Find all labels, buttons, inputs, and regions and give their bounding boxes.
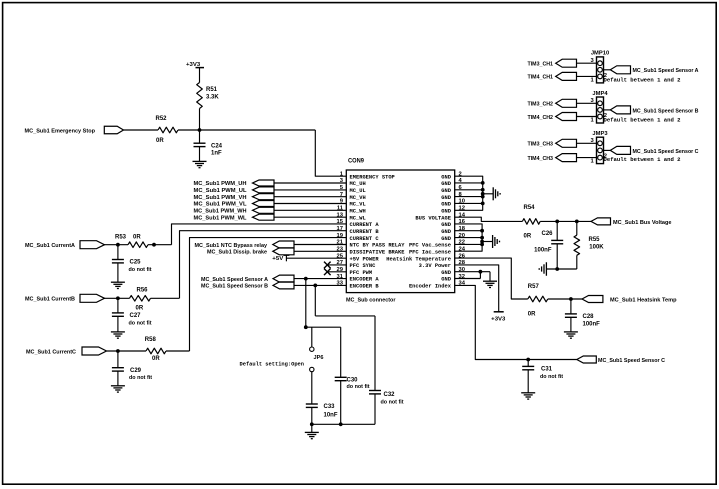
ground below C29 — [117, 371, 119, 386]
svg-text:MC_Sub1 PWM_VH: MC_Sub1 PWM_VH — [194, 195, 247, 201]
svg-text:NTC BY PASS RELAY: NTC BY PASS RELAY — [350, 243, 406, 249]
svg-text:Default between 1 and 2: Default between 1 and 2 — [604, 157, 681, 163]
svg-text:GND: GND — [441, 208, 451, 214]
wire Speed Sensor A down — [305, 279, 307, 328]
ground below C27 — [117, 316, 119, 332]
wire TIM4_CH3 to JMP3 — [577, 157, 597, 159]
wire Speed Sensor B down — [314, 285, 316, 316]
wire Speed Sensor B to CON9 pin 33 — [294, 284, 346, 286]
wire GND bus pins 2-12 — [455, 176, 483, 210]
port MC_Sub1 Heatsink Temp — [582, 296, 603, 303]
svg-text:BUS VOLTAGE: BUS VOLTAGE — [415, 215, 451, 221]
port MC_Sub1 Speed Sensor C — [610, 146, 630, 154]
svg-text:ENCODER B: ENCODER B — [350, 284, 380, 290]
svg-text:JMP10: JMP10 — [591, 51, 609, 57]
svg-text:GND: GND — [441, 229, 451, 235]
ground left of rail — [545, 262, 547, 276]
node CurrentC junction — [116, 349, 120, 353]
wire BUS VOLTAGE pin 14 to R54 — [455, 217, 523, 221]
svg-text:C28: C28 — [583, 314, 595, 320]
wire Speed Sensor A to CON9 pin 31 — [294, 278, 346, 280]
svg-text:TIM4_CH3: TIM4_CH3 — [528, 156, 554, 162]
svg-text:MC_Sub1 Bus Voltage: MC_Sub1 Bus Voltage — [613, 220, 672, 226]
resistor R55 100K — [576, 221, 578, 235]
wire TIM3_CH2 to JMP4 — [577, 102, 597, 104]
svg-text:R56: R56 — [137, 288, 149, 294]
svg-text:MC_Sub1 NTC Bypass relay: MC_Sub1 NTC Bypass relay — [195, 243, 268, 249]
svg-text:MC_Sub1 PWM_WH: MC_Sub1 PWM_WH — [194, 209, 247, 215]
svg-text:MC_Sub connector: MC_Sub connector — [346, 298, 396, 304]
svg-text:+5V: +5V — [272, 256, 283, 262]
jumper JP6 — [310, 347, 314, 351]
wire stub pin 27 — [327, 264, 346, 266]
svg-text:MC_Sub1 Speed Sensor A: MC_Sub1 Speed Sensor A — [201, 277, 269, 283]
node R51/R52/C24 junction — [198, 128, 202, 132]
svg-text:EMERGENCY STOP: EMERGENCY STOP — [350, 174, 395, 180]
node GND bus2 stem — [480, 240, 484, 244]
capacitor C27 do not fit — [117, 298, 119, 313]
svg-text:GND: GND — [441, 188, 451, 194]
svg-text:0R: 0R — [133, 235, 141, 241]
svg-text:Default between 1 and 2: Default between 1 and 2 — [604, 77, 681, 83]
svg-text:GND: GND — [441, 236, 451, 242]
svg-text:JMP3: JMP3 — [592, 131, 608, 137]
svg-text:MC_Sub1 Speed Sensor B: MC_Sub1 Speed Sensor B — [201, 284, 268, 290]
svg-text:C30: C30 — [347, 378, 359, 384]
svg-text:R58: R58 — [145, 337, 157, 343]
no-connect X on CON9 pin 29 — [324, 269, 331, 276]
svg-text:1nF: 1nF — [211, 151, 222, 157]
port MC_Sub1 Speed Sensor C — [577, 356, 597, 363]
svg-text:MC_Sub1 Speed Sensor C: MC_Sub1 Speed Sensor C — [598, 358, 666, 364]
svg-text:C27: C27 — [130, 313, 142, 319]
capacitor C33 10nF — [306, 403, 318, 405]
svg-text:CON9: CON9 — [348, 159, 365, 165]
svg-text:GND: GND — [441, 222, 451, 228]
resistor R51 — [197, 83, 203, 109]
wire MC_Sub1 PWM_VL to CON9 — [274, 203, 346, 205]
svg-text:Heatsink Temperature: Heatsink Temperature — [386, 256, 451, 262]
svg-text:do not fit: do not fit — [347, 384, 370, 390]
wire C30 to ground rail — [340, 381, 342, 425]
svg-text:C25: C25 — [130, 260, 142, 266]
node C33/ground — [310, 422, 314, 426]
jumper JMP3 — [597, 137, 604, 163]
resistor R58 — [146, 348, 166, 354]
svg-text:R54: R54 — [524, 205, 536, 211]
capacitor C31 do not fit — [527, 360, 529, 367]
svg-text:GND: GND — [441, 174, 451, 180]
wire TIM3_CH3 to JMP3 — [577, 142, 597, 144]
ground rail — [312, 423, 375, 425]
svg-text:CURRENT A: CURRENT A — [350, 222, 380, 228]
wire R53 to CON9 pin 15 — [148, 244, 172, 246]
wire MC_Sub1 PWM_VH to CON9 — [274, 196, 346, 198]
wire MC_Sub1 PWM_UL to CON9 — [274, 189, 346, 191]
wire C32 to ground rail — [374, 394, 376, 424]
svg-text:CURRENT C: CURRENT C — [350, 236, 380, 242]
svg-text:100nF: 100nF — [534, 247, 552, 253]
capacitor C30 do not fit — [340, 327, 342, 377]
resistor R56 — [130, 296, 151, 302]
resistor R54 — [522, 219, 540, 225]
svg-text:PFC Vac_sense: PFC Vac_sense — [409, 243, 451, 249]
capacitor C26 100nF — [556, 221, 558, 240]
svg-text:CURRENT B: CURRENT B — [350, 229, 380, 235]
svg-text:MC_WL: MC_WL — [350, 215, 366, 221]
wire GND pins 30/32 — [455, 271, 490, 273]
svg-text:C24: C24 — [211, 143, 223, 149]
svg-text:JMP4: JMP4 — [592, 91, 608, 97]
wire Emergency Stop to R52 — [124, 129, 159, 131]
resistor R57 — [528, 296, 548, 302]
node Speed Sensor A junction — [304, 277, 308, 281]
svg-text:DISSIPATIVE BRAKE: DISSIPATIVE BRAKE — [350, 249, 406, 255]
svg-text:MC_VL: MC_VL — [350, 202, 366, 208]
wire GND bus pins 16-24 — [455, 224, 482, 251]
wire R57 to port — [548, 298, 582, 300]
svg-text:do not fit: do not fit — [129, 375, 152, 381]
svg-text:0R: 0R — [156, 138, 164, 144]
port MC_Sub1 Bus Voltage — [591, 218, 611, 225]
svg-text:Encoder Index: Encoder Index — [409, 284, 452, 290]
svg-text:do not fit: do not fit — [129, 267, 152, 273]
capacitor C29 do not fit — [117, 351, 119, 368]
svg-text:MC_Sub1 Speed Sensor B: MC_Sub1 Speed Sensor B — [633, 108, 699, 114]
svg-text:MC_Sub1 Speed Sensor A: MC_Sub1 Speed Sensor A — [633, 68, 700, 74]
wire ground rail C26/R55 — [546, 268, 576, 270]
node GND bus stem — [481, 192, 485, 196]
svg-text:100K: 100K — [589, 244, 604, 250]
svg-text:GND: GND — [441, 270, 451, 276]
svg-text:do not fit: do not fit — [129, 320, 152, 326]
ground below C28 — [570, 317, 572, 332]
port MC_Sub1 Speed Sensor A — [610, 66, 630, 74]
jumper JMP4 — [597, 97, 604, 123]
wire R52 to CON9 pin 1 — [178, 129, 315, 131]
node R53 right junction — [152, 243, 156, 247]
ground below C31 — [527, 370, 529, 393]
svg-text:R57: R57 — [528, 284, 540, 290]
svg-text:MC_UH: MC_UH — [350, 181, 366, 187]
svg-text:3.3V Power: 3.3V Power — [419, 263, 451, 269]
svg-text:MC_Sub1 CurrentB: MC_Sub1 CurrentB — [25, 297, 75, 303]
svg-text:PFC PWM: PFC PWM — [350, 270, 373, 276]
wire MC_Sub1 PWM_UH to CON9 — [274, 182, 346, 184]
svg-text:0R: 0R — [528, 311, 536, 317]
wire JMP10 pin2 to port — [604, 69, 611, 71]
ground below pins 30/32 — [489, 272, 491, 282]
svg-text:MC_Sub1 Speed Sensor C: MC_Sub1 Speed Sensor C — [633, 149, 700, 155]
wire C26 to ground rail — [556, 244, 558, 269]
wire R56 to CON9 pin 17 — [151, 297, 180, 299]
svg-text:PFC SYNC: PFC SYNC — [350, 263, 377, 269]
wire CurrentC to R58 — [107, 350, 147, 352]
svg-text:100nF: 100nF — [583, 322, 601, 328]
svg-text:MC_Sub1 PWM_WL: MC_Sub1 PWM_WL — [194, 215, 247, 221]
wire JMP3 pin2 to port — [604, 149, 611, 151]
resistor R52 — [158, 127, 178, 133]
svg-text:MC_Sub1 PWM_VL: MC_Sub1 PWM_VL — [194, 202, 247, 208]
wire Encoder Index pin 34 to Speed Sensor C — [455, 285, 577, 359]
svg-text:0R: 0R — [152, 356, 160, 362]
svg-text:JP6: JP6 — [314, 355, 324, 361]
svg-text:Default setting:Open: Default setting:Open — [240, 361, 305, 367]
wire Heatsink pin 26 to R57 — [455, 258, 528, 299]
svg-text:C26: C26 — [541, 231, 553, 237]
svg-text:0R: 0R — [136, 306, 144, 312]
no-connect X on CON9 pin 27 — [324, 262, 331, 269]
svg-text:10nF: 10nF — [324, 412, 338, 418]
node CurrentB junction — [116, 296, 120, 300]
wire TIM4_CH1 to JMP10 — [577, 75, 597, 77]
svg-text:Default between 1 and 2: Default between 1 and 2 — [604, 118, 681, 124]
capacitor C25 do not fit — [117, 245, 119, 260]
svg-text:TIM3_CH3: TIM3_CH3 — [528, 142, 554, 148]
svg-text:MC_UL: MC_UL — [350, 188, 366, 194]
svg-text:0R: 0R — [524, 234, 532, 240]
svg-text:MC_VH: MC_VH — [350, 195, 366, 201]
ground right cluster1 — [492, 187, 494, 200]
svg-text:MC_Sub1 Heatsink Temp: MC_Sub1 Heatsink Temp — [610, 297, 677, 303]
wire MC_Sub1 PWM_WL to CON9 — [274, 216, 346, 218]
svg-text:do not fit: do not fit — [540, 374, 563, 380]
node C26 junction — [555, 220, 559, 224]
ground below C24 — [199, 147, 201, 162]
svg-text:C31: C31 — [541, 367, 553, 373]
wire to JP6 — [311, 327, 313, 347]
svg-text:C29: C29 — [130, 368, 142, 374]
port MC_Sub1 Speed Sensor B — [610, 106, 630, 114]
node sensor A tee — [304, 325, 308, 329]
svg-text:R51: R51 — [206, 87, 218, 93]
svg-text:MC_Sub1 CurrentA: MC_Sub1 CurrentA — [25, 243, 76, 249]
svg-text:GND: GND — [441, 181, 451, 187]
svg-text:R52: R52 — [156, 116, 168, 122]
wire 3.3V pin 28 down — [455, 265, 499, 312]
wire CurrentA to R53 — [105, 244, 129, 246]
svg-text:TIM4_CH2: TIM4_CH2 — [528, 115, 554, 121]
wire C33 to ground rail — [311, 407, 313, 424]
node C30/ground — [339, 422, 343, 426]
wire R58 to CON9 pin 19 — [166, 350, 190, 352]
svg-text:TIM4_CH1: TIM4_CH1 — [528, 75, 554, 81]
wire Dissip. brake to CON9 pin 23 — [294, 250, 346, 252]
wire CurrentB to R56 — [105, 297, 130, 299]
ground symbol bottom — [311, 424, 313, 432]
svg-text:MC_Sub1 Dissip. brake: MC_Sub1 Dissip. brake — [207, 250, 268, 256]
jumper JMP10 — [597, 57, 604, 83]
wire stub pin 29 — [327, 271, 346, 273]
node C26 ground — [555, 267, 559, 271]
svg-text:MC_Sub1 PWM_UH: MC_Sub1 PWM_UH — [194, 181, 247, 187]
svg-text:+3V3: +3V3 — [491, 317, 505, 323]
svg-text:3.3K: 3.3K — [206, 95, 219, 101]
wire MC_Sub1 PWM_WH to CON9 — [274, 209, 346, 211]
svg-text:ENCODER A: ENCODER A — [350, 277, 380, 283]
node R55 junction — [575, 220, 579, 224]
power +3V3 bottom — [494, 311, 504, 313]
svg-text:MC_Sub1 PWM_UL: MC_Sub1 PWM_UL — [194, 188, 247, 194]
wire JMP4 pin2 to port — [604, 109, 611, 111]
ground right cluster2 — [492, 235, 494, 248]
resistor R53 — [128, 242, 148, 248]
svg-text:MC_WH: MC_WH — [350, 208, 366, 214]
node C31 junction — [526, 358, 530, 362]
svg-text:MC_Sub1 Emergency Stop: MC_Sub1 Emergency Stop — [25, 128, 96, 134]
svg-text:GND: GND — [441, 202, 451, 208]
svg-text:GND: GND — [441, 277, 451, 283]
svg-text:do not fit: do not fit — [381, 399, 404, 405]
svg-text:R55: R55 — [589, 237, 601, 243]
wire TIM4_CH2 to JMP4 — [577, 116, 597, 118]
capacitor C24 1nF — [199, 130, 201, 143]
capacitor C32 do not fit — [374, 316, 376, 391]
wire +5V to CON9 pin 25 — [286, 257, 346, 259]
node CurrentA junction — [116, 243, 120, 247]
svg-text:GND: GND — [441, 195, 451, 201]
svg-text:R53: R53 — [115, 234, 127, 240]
connector CON9 box — [346, 170, 454, 293]
svg-text:TIM3_CH1: TIM3_CH1 — [528, 62, 554, 68]
wire TIM3_CH1 to JMP10 — [577, 62, 597, 64]
node C28 junction — [569, 297, 573, 301]
wire across to C32 — [315, 315, 375, 317]
node Speed Sensor B junction — [313, 284, 317, 288]
svg-text:C32: C32 — [384, 392, 396, 398]
capacitor C28 100nF — [570, 299, 572, 314]
wire across to C30 — [306, 326, 341, 328]
svg-text:PFC Iac_sense: PFC Iac_sense — [409, 249, 451, 255]
svg-text:TIM3_CH2: TIM3_CH2 — [528, 102, 554, 108]
svg-text:MC_Sub1 CurrentC: MC_Sub1 CurrentC — [26, 349, 77, 355]
svg-text:+5V POWER: +5V POWER — [350, 256, 380, 262]
ground below C25 — [117, 263, 119, 282]
wire R54 to port — [540, 220, 591, 222]
svg-text:C33: C33 — [324, 404, 336, 410]
wire NTC Bypass relay to CON9 pin 21 — [294, 244, 346, 246]
wire JP6 to C33 — [311, 372, 313, 404]
node pin30/32 join — [479, 270, 483, 274]
wire R51 to node — [199, 109, 201, 131]
